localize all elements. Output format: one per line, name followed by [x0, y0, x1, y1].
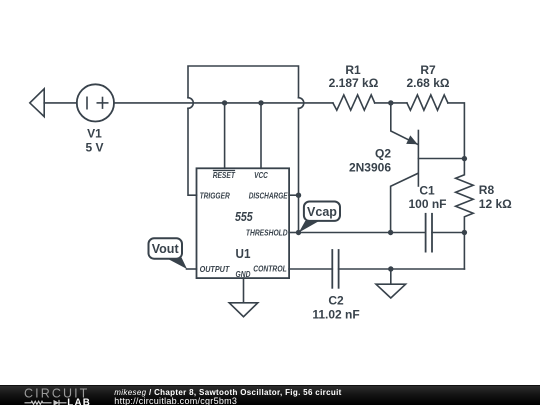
svg-text:555: 555: [235, 209, 253, 224]
wire R7 right lead down to base node: [448, 103, 465, 159]
wire hop (right riser over V+ net): [299, 98, 304, 109]
svg-text:2.187 kΩ: 2.187 kΩ: [329, 76, 379, 90]
wire OUTPUT pin stub: [187, 268, 197, 270]
junction DISCHARGE node: [296, 193, 301, 198]
svg-text:LAB: LAB: [67, 397, 91, 405]
svg-text:12 kΩ: 12 kΩ: [479, 197, 512, 211]
junction Q2 base / R7 / R8 node: [462, 156, 467, 161]
wire GND pin down: [243, 278, 245, 303]
resistor R1: [333, 95, 375, 110]
junction R1/R7/Q2-emitter node: [388, 100, 393, 105]
node Vout (named net flag on OUTPUT): [149, 238, 188, 269]
wire DISCHARGE node to THRESHOLD node: [298, 195, 300, 232]
capacitor C2: [332, 250, 338, 288]
svg-text:THRESHOLD: THRESHOLD: [246, 227, 288, 237]
wire THRESHOLD node to C1 left plate: [299, 232, 426, 234]
CircuitLab logo resistor squiggle: [25, 401, 52, 404]
ground (bottom net): [376, 284, 406, 298]
junction Q2 collector on Vcap net: [388, 230, 393, 235]
junction C1/R8 bottom node: [462, 230, 467, 235]
svg-text:VCC: VCC: [254, 170, 269, 180]
ground (below U1): [229, 303, 258, 317]
wire VCC pin to V+ net: [260, 103, 262, 168]
svg-text:2.68 kΩ: 2.68 kΩ: [407, 76, 450, 90]
CircuitLab logo diode: [54, 399, 67, 405]
svg-text:V1: V1: [87, 127, 102, 141]
junction RESET riser on V+ net: [222, 100, 227, 105]
wire CONTROL pin to C2 left plate: [289, 268, 332, 270]
svg-text:U1: U1: [236, 246, 251, 261]
svg-text:R8: R8: [479, 183, 495, 197]
wire bottom net right-to-left to C2 right plate: [339, 268, 465, 270]
resistor R8: [456, 159, 474, 233]
svg-text:OUTPUT: OUTPUT: [200, 264, 230, 274]
svg-text:RESET: RESET: [213, 170, 236, 180]
junction ground stub on bottom net: [388, 266, 393, 271]
wire THRESHOLD pin stub: [289, 232, 298, 234]
wire R8 bottom node down right side: [463, 233, 465, 270]
svg-text:5 V: 5 V: [85, 141, 103, 155]
svg-text:C2: C2: [328, 293, 344, 307]
IC U1 555 timer body: [197, 168, 290, 278]
wire V+ net: V1 positive terminal to R1: [114, 102, 333, 104]
wire R1 to R7 (emitter node): [375, 102, 407, 104]
svg-text:100 nF: 100 nF: [408, 197, 446, 211]
svg-text:DISCHARGE: DISCHARGE: [249, 190, 288, 200]
wire ground to V1 negative terminal: [44, 102, 77, 104]
ground (left of V1, pointing left): [30, 89, 44, 117]
capacitor C1: [426, 214, 432, 252]
svg-text:2N3906: 2N3906: [349, 161, 391, 175]
svg-text:Vcap: Vcap: [307, 205, 337, 219]
svg-text:http://circuitlab.com/cgr5bm3: http://circuitlab.com/cgr5bm3: [114, 395, 237, 405]
svg-text:CONTROL: CONTROL: [253, 264, 286, 274]
junction VCC riser on V+ net: [258, 100, 263, 105]
wire C1 right plate to R8 bottom node: [432, 232, 464, 234]
svg-text:11.02 nF: 11.02 nF: [312, 307, 359, 321]
svg-text:R7: R7: [420, 63, 436, 77]
junction THRESHOLD / Vcap node: [296, 230, 301, 235]
wire hop (left riser over V+ net): [188, 98, 193, 109]
resistor R7: [407, 95, 448, 110]
transistor Q2 (PNP 2N3906): [391, 103, 465, 233]
RESET overline: [214, 170, 235, 172]
wire RESET pin to V+ net: [224, 103, 226, 168]
wire DISCHARGE pin stub: [289, 194, 298, 196]
svg-text:C1: C1: [419, 183, 435, 197]
node Vcap (named net flag on THRESHOLD): [299, 202, 340, 233]
svg-text:Q2: Q2: [375, 147, 391, 161]
footer bar: [0, 385, 540, 405]
svg-text:TRIGGER: TRIGGER: [200, 190, 230, 200]
svg-text:Vout: Vout: [152, 242, 180, 256]
svg-text:R1: R1: [345, 63, 361, 77]
voltage source V1: [77, 84, 114, 121]
wire TRIGGER to DISCHARGE loop (over the top, vertical risers): [188, 66, 299, 195]
wire bottom net to right ground: [390, 269, 392, 284]
